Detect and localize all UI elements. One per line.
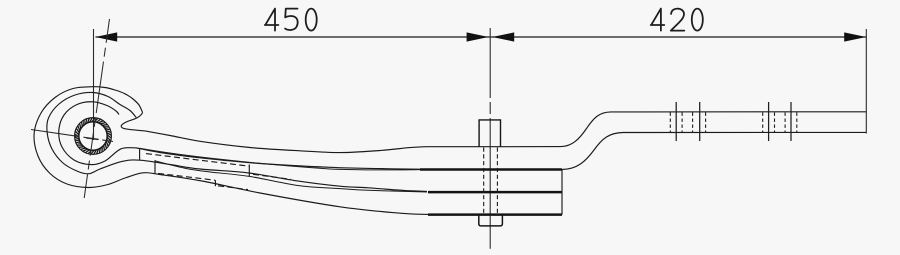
- main leaf S-bend top edge: [561, 112, 866, 147]
- dimension text 450: [265, 9, 317, 31]
- eye wrap mid line + leaf 2 bottom edge (spiral B): [47, 92, 427, 191]
- clamp marks solid lines: [676, 102, 791, 141]
- leaf 2 top edge (separated span): [140, 148, 420, 170]
- main leaf top edge flat: [428, 146, 561, 148]
- leaf 2 taper step: [248, 165, 250, 177]
- arrowhead right of 420: [844, 32, 866, 41]
- main leaf hook tip return curl: [121, 113, 145, 131]
- arrowhead left of 450: [95, 32, 117, 41]
- main leaf bottom edge (eye to clamp): [137, 148, 420, 169]
- leaf 2/3 right end edge: [561, 170, 563, 215]
- extension line right: [865, 29, 867, 134]
- center bolt head: [479, 120, 500, 147]
- dimension line 450/420: [96, 36, 867, 38]
- eye wrap inner surface (spiral A): [59, 102, 137, 165]
- leaf 2 taper hidden line: [146, 154, 249, 167]
- extension line left (eye axis): [93, 29, 95, 140]
- eye bushing knurl hatching: [75, 118, 111, 154]
- leaf 3 top edge (separated span): [155, 161, 427, 192]
- extension/center line middle (bolt axis): [489, 28, 491, 249]
- main leaf top edge (eye to clamp): [145, 131, 428, 153]
- leaf contact line 1 thick (main/leaf2): [420, 168, 562, 171]
- arrowhead right of 450: [467, 32, 489, 41]
- eye wrap outer outline + leaf 3 bottom edge (spiral C): [34, 87, 428, 215]
- center bolt shank hidden lines: [484, 148, 498, 214]
- leaf contact line 2 thick (leaf2/leaf3): [428, 191, 562, 194]
- eye tilted horizontal centerline: [31, 130, 113, 142]
- eye center mark dash: [86, 138, 98, 140]
- eye tilted vertical centerline: [84, 19, 109, 198]
- clamp marks hidden dashed lines: [670, 113, 797, 133]
- leaf 2 taper hidden line tail: [253, 174, 291, 179]
- arrowhead left of 420: [492, 32, 514, 41]
- leaf 3 taper step: [214, 180, 216, 186]
- center bolt nut: [479, 215, 503, 226]
- eye bushing ring circle: [75, 118, 112, 155]
- leaf 3 bottom thick line: [428, 213, 562, 216]
- main leaf S-bend bottom edge: [562, 132, 866, 169]
- eye bore circle: [79, 122, 107, 150]
- leaf 2 left end edge tick: [139, 148, 141, 160]
- leaf 3 taper hidden line tail: [218, 186, 248, 190]
- leaf 3 left end edge tick: [154, 160, 156, 174]
- dimension text 420: [651, 9, 703, 31]
- leaf 3 taper hidden line: [158, 173, 215, 180]
